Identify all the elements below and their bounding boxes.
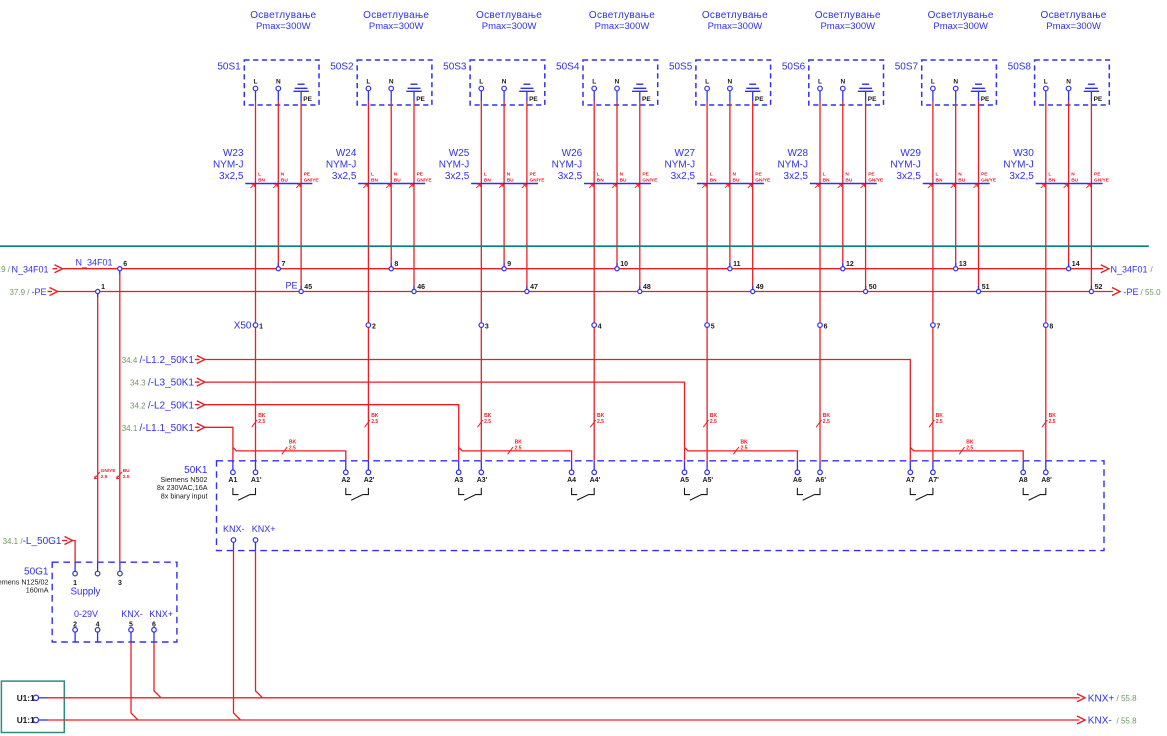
svg-text:49: 49 bbox=[756, 284, 764, 291]
conductor mark BK 2.5 on wire A5' bbox=[703, 413, 717, 427]
svg-text:52: 52 bbox=[1095, 284, 1103, 291]
svg-text:PE: PE bbox=[530, 172, 537, 178]
wire PE 2 bbox=[413, 91, 415, 101]
wire 50G1 KNX- down bbox=[131, 642, 138, 720]
svg-text:A7': A7' bbox=[928, 477, 939, 484]
svg-text:NYM-J: NYM-J bbox=[777, 159, 808, 170]
cable label W24 bbox=[326, 148, 357, 182]
wire N 5 bbox=[729, 91, 731, 102]
svg-text:L: L bbox=[818, 79, 822, 86]
svg-text:L: L bbox=[705, 79, 709, 86]
svg-text:6: 6 bbox=[123, 261, 127, 268]
cable label W28 bbox=[777, 148, 808, 182]
svg-text:34.2 /-L2_50K1: 34.2 /-L2_50K1 bbox=[130, 400, 194, 411]
svg-text:A1: A1 bbox=[228, 477, 237, 484]
cable label W30 bbox=[1003, 148, 1034, 182]
svg-text:W24: W24 bbox=[336, 148, 357, 159]
svg-text:1: 1 bbox=[259, 323, 263, 330]
node 51 (PE of lamp 7) bbox=[976, 284, 989, 294]
load title 50S7 Osvetluvanje Pmax=300W bbox=[928, 10, 994, 32]
node 1 (PE bus to supply) bbox=[96, 284, 106, 297]
svg-text:2.5: 2.5 bbox=[710, 419, 717, 425]
svg-text:W30: W30 bbox=[1013, 148, 1034, 159]
wire N 7 bbox=[955, 91, 957, 102]
svg-text:N_34F01: N_34F01 bbox=[12, 264, 49, 274]
svg-text:3x2,5: 3x2,5 bbox=[1009, 171, 1034, 182]
svg-text:PE: PE bbox=[304, 172, 311, 178]
conductor mark BK 2.5 on wire A1' bbox=[252, 413, 266, 427]
svg-text:Осветлување: Осветлување bbox=[250, 10, 316, 21]
svg-text:Осветлување: Осветлување bbox=[589, 10, 655, 21]
svg-text:7: 7 bbox=[937, 323, 941, 330]
svg-text:A8: A8 bbox=[1019, 477, 1028, 484]
svg-text:L: L bbox=[597, 172, 600, 178]
svg-text:N: N bbox=[728, 79, 733, 86]
svg-text:Осветлување: Осветлување bbox=[1041, 10, 1107, 21]
svg-text:PE: PE bbox=[1094, 96, 1103, 103]
svg-text:2.5: 2.5 bbox=[1049, 419, 1056, 425]
node 9 (N of lamp 3) bbox=[502, 261, 511, 271]
svg-text:KNX-: KNX- bbox=[121, 609, 143, 619]
svg-text:X50: X50 bbox=[234, 321, 252, 332]
terminal 50G1:6 bbox=[152, 621, 157, 642]
lamp box 50S8 bbox=[1035, 60, 1110, 105]
node 52 (PE of lamp 8) bbox=[1089, 284, 1102, 294]
svg-text:BN: BN bbox=[484, 178, 491, 184]
cable label W29 bbox=[890, 148, 921, 182]
svg-text:34.4 /-L1.2_50K1: 34.4 /-L1.2_50K1 bbox=[122, 355, 195, 366]
relay contact 3 bbox=[459, 488, 482, 500]
cable W24 marker line bbox=[358, 183, 425, 185]
svg-text:8: 8 bbox=[1049, 323, 1053, 330]
svg-text:W23: W23 bbox=[223, 148, 244, 159]
svg-text:/ 55.0: / 55.0 bbox=[1141, 288, 1162, 297]
cable W27 marker line bbox=[697, 183, 764, 185]
svg-text:3x2,5: 3x2,5 bbox=[332, 171, 357, 182]
terminal 50K1 KNX- bbox=[231, 538, 236, 551]
svg-text:A5: A5 bbox=[680, 477, 689, 484]
earth symbol PE 50S4 bbox=[632, 84, 651, 103]
earth symbol PE 50S6 bbox=[858, 84, 877, 103]
cable W23 marker line bbox=[245, 183, 312, 185]
svg-text:L: L bbox=[254, 79, 258, 86]
wire -L_50G1 to supply bbox=[72, 541, 75, 563]
lamp box 50S1 bbox=[244, 60, 319, 105]
svg-text:2.5: 2.5 bbox=[966, 446, 973, 452]
svg-text:GN/YE: GN/YE bbox=[101, 468, 117, 474]
svg-text:GN/YE: GN/YE bbox=[1094, 178, 1110, 184]
conductor mark BK 2.5 on wire A3' bbox=[478, 413, 492, 427]
svg-text:A5': A5' bbox=[702, 477, 713, 484]
svg-text:N: N bbox=[958, 172, 962, 178]
svg-text:45: 45 bbox=[304, 284, 312, 291]
node 8 (N of lamp 2) bbox=[389, 261, 398, 271]
cable label W25 bbox=[439, 148, 470, 182]
separator line (page zone) bbox=[0, 245, 1149, 247]
wire 50K1 KNX+ down bbox=[256, 551, 263, 698]
svg-text:L: L bbox=[1048, 172, 1051, 178]
svg-text:N_34F01: N_34F01 bbox=[1111, 264, 1148, 274]
conductor mark BK 2.5 on jumper bbox=[282, 440, 297, 455]
wire PE 7 bbox=[978, 91, 980, 101]
node 10 (N of lamp 4) bbox=[615, 261, 628, 271]
conductor mark GN/YE 2.5 bbox=[94, 468, 116, 480]
svg-text:50S2: 50S2 bbox=[330, 61, 354, 72]
svg-text:L: L bbox=[479, 79, 483, 86]
power supply 50G1 box bbox=[52, 562, 177, 642]
svg-text:PE: PE bbox=[1094, 172, 1101, 178]
wire PE 6 bbox=[865, 91, 867, 101]
cable label W26 bbox=[552, 148, 583, 182]
terminal 50K1 KNX+ bbox=[253, 538, 258, 551]
svg-text:N: N bbox=[845, 172, 849, 178]
svg-text:9: 9 bbox=[507, 261, 511, 268]
earth symbol PE 50S2 bbox=[406, 84, 425, 103]
source arrow -L3_50K1 bbox=[130, 378, 205, 389]
svg-text:Pmax=300W: Pmax=300W bbox=[1046, 21, 1101, 32]
wire N 1 bbox=[277, 91, 279, 102]
destination arrow KNX+ bbox=[1077, 693, 1137, 704]
svg-text:Pmax=300W: Pmax=300W bbox=[820, 21, 875, 32]
conductor marks W26 bbox=[589, 172, 658, 188]
conductor mark BK 2.5 on wire A2' bbox=[365, 413, 379, 427]
svg-text:BN: BN bbox=[597, 178, 604, 184]
wire PE 5 bbox=[752, 91, 754, 101]
svg-text:50S3: 50S3 bbox=[443, 61, 467, 72]
terminal 50G1:5 bbox=[129, 621, 134, 642]
svg-text:50G1: 50G1 bbox=[24, 567, 49, 578]
svg-text:11: 11 bbox=[733, 261, 741, 268]
terminal A7 bbox=[906, 461, 915, 484]
svg-text:Pmax=300W: Pmax=300W bbox=[595, 21, 650, 32]
cable label W23 bbox=[213, 148, 244, 182]
svg-text:1: 1 bbox=[101, 284, 105, 291]
svg-text:3x2,5: 3x2,5 bbox=[219, 171, 244, 182]
earth symbol PE 50S7 bbox=[971, 84, 990, 103]
svg-text:PE: PE bbox=[417, 172, 424, 178]
node 6 (N bus to supply) bbox=[118, 261, 127, 274]
svg-text:50S8: 50S8 bbox=[1008, 61, 1032, 72]
svg-text:2.5: 2.5 bbox=[289, 446, 296, 452]
svg-text:Pmax=300W: Pmax=300W bbox=[256, 21, 311, 32]
svg-text:NYM-J: NYM-J bbox=[552, 159, 583, 170]
svg-text:BU: BU bbox=[620, 178, 627, 184]
svg-text:2.5: 2.5 bbox=[258, 419, 265, 425]
svg-text:50S7: 50S7 bbox=[895, 61, 919, 72]
node 48 (PE of lamp 4) bbox=[638, 284, 651, 294]
load title 50S6 Osvetluvanje Pmax=300W bbox=[815, 10, 881, 32]
svg-text:KNX-: KNX- bbox=[223, 524, 245, 534]
svg-text:Pmax=300W: Pmax=300W bbox=[708, 21, 763, 32]
svg-text:NYM-J: NYM-J bbox=[213, 159, 244, 170]
svg-text:6: 6 bbox=[824, 323, 828, 330]
svg-text:NYM-J: NYM-J bbox=[326, 159, 357, 170]
terminal A2' bbox=[364, 461, 375, 484]
terminal A2 bbox=[341, 461, 350, 484]
svg-text:3x2,5: 3x2,5 bbox=[558, 171, 583, 182]
terminal A6 bbox=[793, 461, 802, 484]
wire PE 3 bbox=[526, 91, 528, 101]
node 7 (N of lamp 1) bbox=[276, 261, 285, 271]
relay contact 1 bbox=[233, 488, 256, 500]
port U1:1 KNX- bbox=[17, 715, 48, 725]
svg-text:A4': A4' bbox=[590, 477, 601, 484]
conductor mark BK 2.5 on wire A4' bbox=[590, 413, 604, 427]
svg-text:GN/YE: GN/YE bbox=[530, 178, 546, 184]
terminal A7' bbox=[928, 461, 939, 484]
node 14 (N of lamp 8) bbox=[1067, 261, 1080, 271]
svg-text:N: N bbox=[394, 172, 398, 178]
load title 50S2 Osvetluvanje Pmax=300W bbox=[363, 10, 429, 32]
conductor marks W24 bbox=[363, 172, 432, 188]
svg-text:N: N bbox=[281, 172, 285, 178]
svg-text:BN: BN bbox=[1048, 178, 1055, 184]
wire N to 50G1 (BU) bbox=[119, 271, 121, 562]
lamp box 50S4 bbox=[583, 60, 658, 105]
svg-text:KNX+: KNX+ bbox=[1088, 693, 1115, 704]
wire 50K1 KNX- down bbox=[234, 551, 241, 720]
earth symbol PE 50S3 bbox=[519, 84, 538, 103]
svg-text:U1:1: U1:1 bbox=[17, 693, 35, 703]
conductor mark BK 2.5 on jumper bbox=[733, 440, 748, 455]
terminal X50:3 bbox=[479, 323, 489, 330]
conductor marks W28 bbox=[815, 172, 884, 188]
bus N_34F01 bbox=[62, 268, 1103, 270]
terminal A4' bbox=[590, 461, 601, 484]
cable W29 marker line bbox=[923, 183, 990, 185]
svg-text:3x2,5: 3x2,5 bbox=[671, 171, 696, 182]
svg-text:-PE: -PE bbox=[32, 287, 47, 297]
svg-text:PE: PE bbox=[981, 96, 990, 103]
node 46 (PE of lamp 2) bbox=[412, 284, 425, 294]
relay contact 2 bbox=[346, 488, 369, 500]
terminal A8' bbox=[1041, 461, 1052, 484]
svg-text:50S6: 50S6 bbox=[782, 61, 806, 72]
svg-text:48: 48 bbox=[643, 284, 651, 291]
svg-text:4: 4 bbox=[598, 323, 602, 330]
source arrow -L1.1_50K1 bbox=[122, 423, 205, 434]
lamp box 50S3 bbox=[470, 60, 545, 105]
svg-text:2.5: 2.5 bbox=[484, 419, 491, 425]
svg-text:3x2,5: 3x2,5 bbox=[784, 171, 809, 182]
wire L 7 bbox=[932, 91, 934, 102]
bus -PE bbox=[57, 291, 1113, 293]
svg-text:BU: BU bbox=[507, 178, 514, 184]
wire N 8 bbox=[1068, 91, 1070, 102]
svg-text:36.9 /: 36.9 / bbox=[0, 265, 11, 274]
terminal 50G1:4 bbox=[95, 621, 100, 642]
label KNX- KNX+ on 50K1 bbox=[223, 524, 276, 534]
earth symbol PE 50S1 bbox=[293, 84, 312, 103]
wire L 6 bbox=[819, 91, 821, 102]
svg-text:50S5: 50S5 bbox=[669, 61, 693, 72]
relay contact 5 bbox=[685, 488, 708, 500]
svg-text:PE: PE bbox=[416, 96, 425, 103]
wire L 3 bbox=[480, 91, 482, 102]
svg-text:N: N bbox=[1066, 79, 1071, 86]
svg-text:PE: PE bbox=[755, 96, 764, 103]
conductor mark BK 2.5 on jumper bbox=[959, 440, 974, 455]
node 45 (PE of lamp 1) bbox=[299, 284, 312, 294]
svg-text:3: 3 bbox=[118, 580, 122, 587]
lamp box 50S2 bbox=[357, 60, 432, 105]
svg-text:Осветлување: Осветлување bbox=[702, 10, 768, 21]
terminal A1' bbox=[251, 461, 262, 484]
wire PE to 50G1 (GN/YE) bbox=[97, 294, 99, 563]
svg-text:W29: W29 bbox=[900, 148, 921, 159]
svg-text:U1:1: U1:1 bbox=[17, 715, 35, 725]
load title 50S3 Osvetluvanje Pmax=300W bbox=[476, 10, 542, 32]
load title 50S4 Osvetluvanje Pmax=300W bbox=[589, 10, 655, 32]
svg-text:NYM-J: NYM-J bbox=[665, 159, 696, 170]
svg-text:PE: PE bbox=[868, 172, 875, 178]
svg-text:2.5: 2.5 bbox=[597, 419, 604, 425]
svg-text:/ 55.8: / 55.8 bbox=[1117, 694, 1138, 703]
wire -L1.1_50K1 feed bbox=[203, 427, 233, 461]
svg-text:KNX+: KNX+ bbox=[149, 609, 173, 619]
svg-text:5: 5 bbox=[711, 323, 715, 330]
label 50G1 bbox=[0, 567, 49, 595]
svg-text:BN: BN bbox=[371, 178, 378, 184]
svg-text:BN: BN bbox=[823, 178, 830, 184]
svg-text:A8': A8' bbox=[1041, 477, 1052, 484]
wire -L3_50K1 feed bbox=[203, 382, 684, 461]
svg-text:PE: PE bbox=[981, 172, 988, 178]
destination arrow -PE right bbox=[1112, 287, 1161, 297]
terminal X50:6 bbox=[818, 323, 828, 330]
svg-text:0-29V: 0-29V bbox=[74, 609, 98, 619]
svg-text:BU: BU bbox=[394, 178, 401, 184]
svg-text:7: 7 bbox=[282, 261, 286, 268]
svg-text:A3': A3' bbox=[477, 477, 488, 484]
relay contact 6 bbox=[797, 488, 820, 500]
svg-text:PE: PE bbox=[642, 96, 651, 103]
load title 50S8 Osvetluvanje Pmax=300W bbox=[1041, 10, 1107, 32]
conductor mark BK 2.5 on wire A8' bbox=[1042, 413, 1056, 427]
svg-text:3x2,5: 3x2,5 bbox=[445, 171, 470, 182]
svg-text:2.5: 2.5 bbox=[123, 474, 130, 480]
svg-text:34.1 /-L1.1_50K1: 34.1 /-L1.1_50K1 bbox=[122, 423, 195, 434]
svg-text:L: L bbox=[371, 172, 374, 178]
wire L 8 bbox=[1045, 91, 1047, 102]
svg-text:Осветлување: Осветлување bbox=[928, 10, 994, 21]
svg-text:/ 55.8: / 55.8 bbox=[1117, 716, 1138, 725]
svg-text:KNX-: KNX- bbox=[1088, 716, 1112, 727]
wire PE 4 bbox=[639, 91, 641, 101]
svg-text:N: N bbox=[615, 79, 620, 86]
svg-text:PE: PE bbox=[285, 280, 297, 290]
wire -L1.2_50K1 feed bbox=[203, 360, 910, 461]
svg-text:BN: BN bbox=[258, 178, 265, 184]
wire 50G1 KNX+ down bbox=[154, 642, 161, 698]
terminal X50:4 bbox=[592, 323, 602, 330]
svg-text:3x2,5: 3x2,5 bbox=[896, 171, 921, 182]
svg-text:Pmax=300W: Pmax=300W bbox=[369, 21, 424, 32]
svg-text:N: N bbox=[840, 79, 845, 86]
node 47 (PE of lamp 3) bbox=[525, 284, 538, 294]
svg-text:160mA: 160mA bbox=[26, 586, 49, 595]
svg-text:3: 3 bbox=[485, 323, 489, 330]
lamp box 50S6 bbox=[809, 60, 884, 105]
bus interface U1 box bbox=[1, 681, 64, 732]
terminal 50G1:2 bbox=[73, 621, 78, 642]
svg-text:2.5: 2.5 bbox=[371, 419, 378, 425]
wire L 4 bbox=[593, 91, 595, 102]
svg-text:L: L bbox=[936, 172, 939, 178]
lamp box 50S5 bbox=[696, 60, 771, 105]
svg-text:BU: BU bbox=[1071, 178, 1078, 184]
svg-text:GN/YE: GN/YE bbox=[868, 178, 884, 184]
terminal 50G1 PE bbox=[95, 562, 100, 576]
wire N 3 bbox=[503, 91, 505, 102]
wire N 6 bbox=[842, 91, 844, 102]
source arrow -L_50G1 bbox=[3, 536, 73, 547]
svg-text:A1': A1' bbox=[251, 477, 262, 484]
svg-text:N: N bbox=[953, 79, 958, 86]
svg-text:2.5: 2.5 bbox=[515, 446, 522, 452]
conductor marks W23 bbox=[251, 172, 320, 188]
svg-text:GN/YE: GN/YE bbox=[755, 178, 771, 184]
svg-text:N: N bbox=[620, 172, 624, 178]
svg-text:L: L bbox=[258, 172, 261, 178]
svg-text:GN/YE: GN/YE bbox=[642, 178, 658, 184]
earth symbol PE 50S8 bbox=[1084, 84, 1103, 103]
wire L 2 bbox=[367, 91, 369, 102]
svg-text:W28: W28 bbox=[787, 148, 808, 159]
svg-text:A6': A6' bbox=[815, 477, 826, 484]
svg-text:Pmax=300W: Pmax=300W bbox=[933, 21, 988, 32]
svg-text:12: 12 bbox=[846, 261, 854, 268]
svg-text:NYM-J: NYM-J bbox=[890, 159, 921, 170]
svg-text:37.9 /: 37.9 / bbox=[9, 288, 30, 297]
conductor mark BU 2.5 bbox=[117, 468, 131, 480]
cable label W27 bbox=[665, 148, 696, 182]
svg-text:A2: A2 bbox=[341, 477, 350, 484]
wire N 4 bbox=[616, 91, 618, 102]
conductor marks W29 bbox=[928, 172, 997, 188]
svg-text:14: 14 bbox=[1072, 261, 1080, 268]
terminal A8 bbox=[1019, 461, 1028, 484]
bus KNX+ bbox=[48, 697, 1080, 699]
svg-text:8x binary input: 8x binary input bbox=[161, 491, 208, 500]
svg-text:BU: BU bbox=[845, 178, 852, 184]
terminal 50G1:3 bbox=[118, 562, 123, 587]
svg-text:2.5: 2.5 bbox=[101, 474, 108, 480]
wire jumper -L2_50K1 to second pole bbox=[459, 448, 572, 461]
relay contact 4 bbox=[572, 488, 595, 500]
node 11 (N of lamp 5) bbox=[728, 261, 741, 271]
svg-text:N: N bbox=[507, 172, 511, 178]
label 0-29V KNX- KNX+ on 50G1 bbox=[74, 609, 173, 619]
svg-text:N: N bbox=[502, 79, 507, 86]
wire L 5 bbox=[706, 91, 708, 102]
svg-text:BU: BU bbox=[733, 178, 740, 184]
source arrow -L1.2_50K1 bbox=[122, 355, 205, 366]
svg-text:A4: A4 bbox=[567, 477, 576, 484]
svg-text:50S4: 50S4 bbox=[556, 61, 580, 72]
cable W30 marker line bbox=[1036, 183, 1103, 185]
wire jumper -L3_50K1 to second pole bbox=[685, 448, 798, 461]
svg-text:46: 46 bbox=[417, 284, 425, 291]
label 50K1 bbox=[157, 465, 208, 500]
cable W26 marker line bbox=[584, 183, 651, 185]
svg-text:BU: BU bbox=[123, 468, 130, 474]
svg-text:W27: W27 bbox=[675, 148, 696, 159]
cable W25 marker line bbox=[471, 183, 538, 185]
terminal 50G1:1 bbox=[73, 562, 78, 587]
source arrow -L2_50K1 bbox=[130, 400, 205, 411]
svg-text:8: 8 bbox=[394, 261, 398, 268]
